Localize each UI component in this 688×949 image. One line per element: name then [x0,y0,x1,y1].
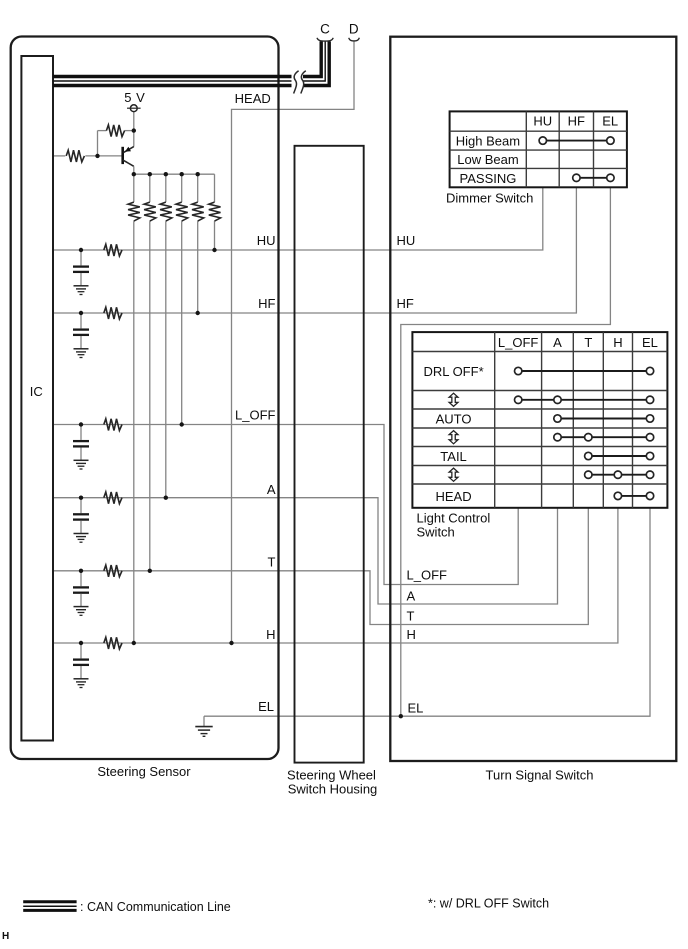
svg-text:H: H [613,335,622,350]
svg-text:HF: HF [258,296,275,311]
svg-text:Steering Sensor: Steering Sensor [97,764,191,779]
svg-text:T: T [407,609,415,624]
svg-text:EL: EL [602,113,618,128]
svg-text:EL: EL [408,701,424,716]
svg-text:L_OFF: L_OFF [235,407,276,422]
svg-text:A: A [407,588,416,603]
svg-text:TAIL: TAIL [440,449,467,464]
svg-text:High Beam: High Beam [456,134,520,149]
svg-text:A: A [267,482,276,497]
svg-text:5 V: 5 V [124,90,145,105]
svg-text:Low Beam: Low Beam [457,152,518,167]
svg-text:HU: HU [397,233,416,248]
svg-text:L_OFF: L_OFF [407,568,448,583]
svg-text:Switch: Switch [417,525,455,540]
svg-text:EL: EL [258,699,274,714]
svg-text:HU: HU [257,233,276,248]
svg-text:EL: EL [642,335,658,350]
svg-text:IC: IC [30,384,43,399]
svg-text:Turn Signal Switch: Turn Signal Switch [486,768,594,783]
svg-text:Steering Wheel: Steering Wheel [287,768,376,783]
svg-text:L_OFF: L_OFF [498,335,539,350]
svg-text:HF: HF [397,296,414,311]
svg-text:T: T [584,335,592,350]
svg-text:D: D [349,21,359,36]
svg-text:HF: HF [568,113,585,128]
svg-text:: CAN Communication Line: : CAN Communication Line [80,900,231,914]
svg-text:AUTO: AUTO [436,411,472,426]
svg-text:HEAD: HEAD [235,91,271,106]
svg-text:A: A [553,335,562,350]
svg-text:T: T [268,555,276,570]
svg-text:HU: HU [533,113,552,128]
svg-text:C: C [320,21,330,36]
svg-text:Light Control: Light Control [417,511,491,526]
svg-text:Dimmer Switch: Dimmer Switch [446,191,533,206]
svg-text:HEAD: HEAD [435,489,471,504]
svg-text:H: H [266,627,275,642]
svg-text:H: H [2,931,9,942]
svg-text:H: H [407,627,416,642]
svg-text:Switch Housing: Switch Housing [288,782,378,797]
svg-text:PASSING: PASSING [460,171,517,186]
svg-text:DRL OFF*: DRL OFF* [423,364,483,379]
svg-text:*: w/ DRL OFF Switch: *: w/ DRL OFF Switch [428,897,549,911]
